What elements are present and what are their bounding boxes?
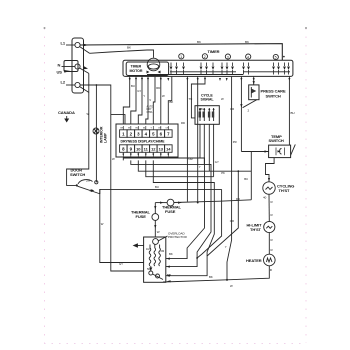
- svg-text:8: 8: [122, 147, 125, 152]
- timer motor M: [147, 58, 160, 71]
- svg-text:OR: OR: [166, 128, 170, 130]
- svg-text:RD: RD: [236, 197, 240, 201]
- svg-text:3: 3: [137, 132, 140, 137]
- terminal N: [75, 64, 80, 69]
- terminal block TB1: [72, 38, 84, 93]
- svg-text:TH'ST: TH'ST: [279, 188, 291, 193]
- svg-text:R: R: [270, 268, 273, 272]
- svg-text:DRYNESS DISPLAY/CHIME: DRYNESS DISPLAY/CHIME: [121, 140, 166, 144]
- svg-text:US: US: [57, 70, 63, 75]
- svg-text:CANADA: CANADA: [58, 110, 75, 115]
- svg-text:BK: BK: [197, 40, 201, 44]
- timer motor sub-box: [126, 62, 168, 76]
- net A pin8 to motor: [123, 158, 204, 259]
- wire timer to cycle signal: [191, 77, 205, 118]
- svg-text:N: N: [58, 63, 61, 68]
- wire N down to door switch jog: [67, 73, 89, 185]
- cell row 2: [120, 145, 173, 157]
- svg-text:BK: BK: [245, 40, 249, 44]
- wire temp switch down to cycling thst: [266, 158, 275, 182]
- net B pin9 to motor: [131, 160, 211, 266]
- net E pin12: [153, 160, 214, 256]
- tiny text block: [147, 106, 154, 114]
- press care switch box: [249, 85, 259, 100]
- svg-text:BK: BK: [169, 252, 173, 256]
- wire door switch to bundle: [99, 189, 222, 193]
- svg-text:FUSE: FUSE: [136, 214, 147, 219]
- timer cam 1: [179, 54, 184, 59]
- svg-text:W: W: [221, 97, 224, 101]
- hi-limit thermostat: [264, 221, 275, 232]
- svg-text:Y: Y: [199, 165, 201, 169]
- svg-text:14: 14: [166, 147, 171, 152]
- wire temp feed from thermal fuse line: [250, 152, 252, 200]
- dotted scan frame right: [305, 28, 307, 343]
- svg-text:4: 4: [145, 132, 148, 137]
- wire L2 lead: [66, 84, 75, 86]
- svg-text:CTRL: CTRL: [147, 111, 154, 114]
- svg-text:W: W: [157, 230, 160, 234]
- wire lamp feed: [95, 85, 97, 182]
- svg-text:7: 7: [167, 132, 170, 137]
- svg-text:W: W: [101, 222, 104, 226]
- svg-text:5: 5: [275, 56, 277, 60]
- dotted scan frame bottom: [44, 343, 306, 345]
- svg-text:PK: PK: [221, 171, 225, 175]
- wire cycling to hi-limit: [268, 194, 270, 221]
- heater: [264, 254, 276, 266]
- svg-text:TN: TN: [189, 97, 193, 101]
- svg-text:BK: BK: [209, 275, 213, 279]
- blade L1: [80, 47, 90, 54]
- svg-text:OR: OR: [230, 219, 234, 223]
- svg-text:PROTECTOR: PROTECTOR: [168, 235, 188, 239]
- svg-text:5M: 5M: [147, 267, 151, 271]
- svg-text:RD: RD: [156, 86, 160, 90]
- svg-text:BR: BR: [167, 273, 171, 277]
- svg-text:OR: OR: [189, 157, 193, 161]
- svg-text:BU: BU: [131, 84, 135, 88]
- wire code tags: [87, 84, 249, 288]
- svg-text:V: V: [149, 98, 151, 102]
- svg-text:FUSE: FUSE: [165, 209, 176, 214]
- connector / display board outline: [116, 124, 178, 157]
- drive motor box: [144, 237, 166, 282]
- net C branch down to motor: [166, 171, 238, 276]
- svg-text:R: R: [271, 238, 274, 242]
- svg-text:GY: GY: [119, 262, 123, 266]
- svg-text:Y: Y: [225, 245, 227, 249]
- timer drop to connector pins: [123, 77, 172, 124]
- wire timer right to temp switch: [288, 77, 290, 146]
- blade L2: [80, 87, 90, 93]
- net D pin11 to bottom: [146, 160, 214, 176]
- temp switch box: [269, 145, 291, 158]
- svg-text:OR: OR: [230, 107, 234, 111]
- svg-text:HEATER: HEATER: [246, 258, 262, 263]
- svg-text:GY: GY: [215, 160, 219, 164]
- svg-text:1: 1: [180, 55, 182, 59]
- svg-text:W: W: [112, 157, 115, 161]
- connector pin color tags: [121, 128, 170, 130]
- wire hi-limit to heater: [268, 233, 270, 255]
- svg-text:PR: PR: [233, 140, 237, 144]
- wire L2 bus: [80, 85, 144, 271]
- svg-text:W: W: [230, 284, 233, 288]
- svg-text:SWITCH: SWITCH: [269, 138, 284, 143]
- wire L1 bus top: [80, 44, 282, 61]
- neutral terminal sub-box: [64, 61, 78, 72]
- blade N: [80, 68, 89, 73]
- svg-text:GY: GY: [158, 128, 162, 130]
- wire L1 lead: [66, 44, 75, 46]
- timer cam 2: [202, 54, 207, 59]
- svg-text:5: 5: [152, 132, 155, 137]
- svg-text:13: 13: [159, 147, 164, 152]
- svg-text:10: 10: [136, 147, 141, 152]
- svg-text:40: 40: [263, 196, 267, 200]
- svg-text:4: 4: [247, 55, 249, 59]
- motor terminals: [147, 71, 150, 74]
- overload protector: [153, 239, 159, 245]
- temp switch contacts: [276, 148, 285, 156]
- cycle signal element 2: [208, 108, 215, 121]
- interior lamp LA1: [93, 128, 99, 134]
- cell row 1: [120, 126, 173, 137]
- door switch: [76, 184, 78, 186]
- svg-text:BK: BK: [127, 46, 131, 50]
- svg-text:BU: BU: [291, 111, 295, 115]
- svg-text:SWITCH: SWITCH: [266, 93, 281, 98]
- svg-text:12: 12: [151, 147, 156, 152]
- svg-text:9: 9: [130, 147, 133, 152]
- svg-text:BU: BU: [244, 177, 248, 181]
- svg-text:GY: GY: [137, 89, 141, 93]
- timer long drops: [186, 77, 188, 202]
- timer cam 4: [246, 54, 251, 59]
- svg-text:LBU: LBU: [199, 107, 204, 111]
- svg-text:BK: BK: [170, 100, 174, 104]
- svg-text:W: W: [162, 94, 165, 98]
- press care switch stub: [253, 77, 255, 85]
- wire L2 tap to connector maze: [111, 115, 125, 124]
- timer contacts group 1: [129, 63, 291, 82]
- svg-text:2M: 2M: [86, 179, 91, 183]
- svg-text:SWITCH: SWITCH: [70, 172, 85, 177]
- svg-text:L1: L1: [61, 41, 66, 46]
- gray frame dot right: [305, 27, 307, 29]
- svg-text:6: 6: [160, 132, 163, 137]
- svg-text:1: 1: [122, 132, 125, 137]
- svg-text:L2: L2: [61, 80, 66, 85]
- svg-text:Y: Y: [151, 128, 153, 130]
- svg-text:1A: 1A: [90, 189, 94, 193]
- wire cycle pin drops: [199, 124, 201, 158]
- thermal fuse top: [167, 199, 174, 206]
- wire thermal line: [155, 202, 167, 204]
- svg-text:TH'ST: TH'ST: [250, 227, 262, 232]
- svg-text:2M: 2M: [161, 249, 165, 253]
- motor windings: [149, 248, 151, 266]
- wire door sw down-left: [100, 189, 144, 262]
- svg-text:R: R: [271, 200, 274, 204]
- svg-text:R: R: [271, 248, 274, 252]
- wire L1 to timer motor: [90, 50, 154, 58]
- svg-text:1M: 1M: [146, 247, 150, 251]
- svg-text:Y: Y: [143, 94, 145, 98]
- cycle signal element 1: [199, 108, 206, 121]
- svg-text:TIMER: TIMER: [131, 65, 142, 69]
- dotted scan frame left: [44, 28, 46, 343]
- press care blade: [243, 100, 257, 108]
- svg-text:2: 2: [204, 55, 206, 59]
- terminal L1: [75, 42, 80, 47]
- cycling thermostat: [263, 182, 275, 194]
- wire into temp switch left: [241, 151, 268, 153]
- centrifugal switch: [149, 271, 153, 275]
- gray frame dot left: [44, 27, 46, 29]
- wire fuse vertical: [154, 203, 156, 214]
- svg-text:2: 2: [130, 132, 133, 137]
- svg-text:11: 11: [144, 147, 149, 152]
- svg-text:BU: BU: [143, 128, 146, 130]
- wire N lead: [62, 66, 75, 68]
- svg-text:MOTOR: MOTOR: [130, 69, 143, 73]
- press care switch feed: [240, 77, 242, 108]
- svg-text:W: W: [87, 112, 90, 116]
- door switch net down: [197, 189, 222, 258]
- svg-text:R: R: [271, 213, 274, 217]
- terminal L2: [75, 82, 80, 87]
- svg-text:RD: RD: [181, 121, 185, 125]
- net C pin10 to temp switch: [138, 160, 251, 171]
- thermal fuse left: [152, 214, 159, 221]
- svg-text:RD: RD: [136, 128, 140, 130]
- cycle signal box: [195, 106, 219, 125]
- svg-text:SIGNAL: SIGNAL: [201, 98, 215, 102]
- timer box: [123, 60, 293, 76]
- svg-text:2: 2: [248, 109, 250, 113]
- temp switch blade: [291, 144, 296, 155]
- svg-text:BU: BU: [155, 185, 159, 189]
- timer cam 3: [225, 54, 230, 59]
- timer cam 5: [273, 54, 278, 59]
- svg-text:3: 3: [227, 55, 229, 59]
- wire heater to motor bottom: [163, 266, 269, 282]
- svg-text:LAMP: LAMP: [104, 133, 108, 143]
- ground chassis: [138, 245, 144, 247]
- svg-text:TIMER: TIMER: [208, 49, 220, 54]
